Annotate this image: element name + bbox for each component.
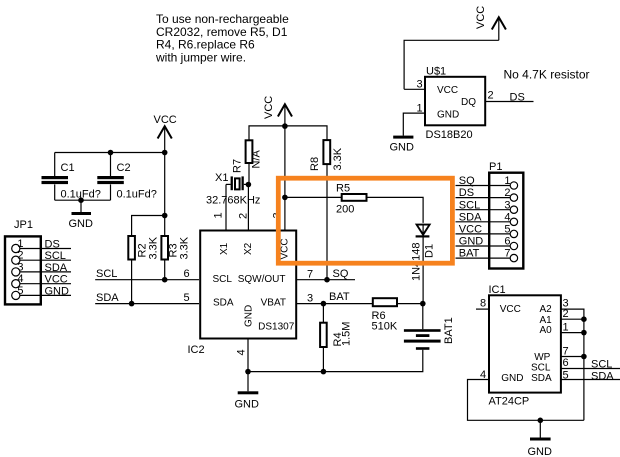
svg-text:3: 3: [307, 293, 313, 305]
ground (IC2): [235, 372, 260, 411]
ground (U$1): [390, 136, 415, 154]
wire SQ stub (IC2 pin7): [296, 279, 355, 281]
wire IC1 pin3 A2: [561, 309, 584, 420]
svg-text:SCL: SCL: [459, 199, 480, 211]
svg-text:BAT: BAT: [329, 291, 350, 303]
connector JP1: [5, 219, 41, 304]
svg-text:C2: C2: [117, 162, 131, 174]
svg-text:VCC: VCC: [263, 96, 275, 119]
P1 pin 4: [456, 211, 518, 225]
svg-text:U$1: U$1: [426, 66, 446, 78]
wire SDA: [95, 303, 199, 305]
P1 pin 2: [456, 187, 518, 201]
svg-text:200: 200: [336, 203, 354, 215]
wire IC1 pin8: [476, 308, 489, 310]
svg-text:SQ: SQ: [333, 268, 349, 280]
svg-text:3.3K: 3.3K: [179, 236, 191, 259]
svg-text:2: 2: [504, 187, 510, 199]
svg-text:SDA: SDA: [96, 292, 119, 304]
svg-text:IC2: IC2: [188, 344, 205, 356]
svg-text:8: 8: [480, 298, 486, 310]
IC U$1 DS18B20 body: [425, 66, 485, 142]
resistor R8: [309, 140, 344, 280]
svg-text:A0: A0: [539, 325, 552, 336]
svg-text:3: 3: [504, 199, 510, 211]
svg-text:1: 1: [504, 175, 510, 187]
wire IC1 pin1 A0: [561, 332, 584, 334]
svg-text:4: 4: [236, 349, 248, 355]
svg-text:SQ: SQ: [459, 175, 475, 187]
svg-text:DS: DS: [510, 92, 525, 104]
JP1 pin 3: [12, 261, 71, 276]
wire BAT (IC2 pin3 VBAT): [296, 303, 373, 305]
svg-text:SCL: SCL: [96, 268, 117, 280]
JP1 pin 2: [12, 250, 71, 265]
svg-text:1: 1: [17, 238, 23, 250]
wire U$1 VCC feed: [404, 40, 499, 89]
capacitor C2: [97, 153, 157, 201]
wire to R2: [132, 216, 165, 237]
svg-text:VCC: VCC: [280, 238, 291, 259]
svg-text:SDA: SDA: [591, 370, 614, 382]
svg-text:GND: GND: [45, 285, 70, 297]
JP1 pin 4: [12, 273, 71, 288]
svg-text:VCC: VCC: [437, 85, 458, 96]
svg-text:7: 7: [307, 269, 313, 281]
svg-text:No 4.7K resistor: No 4.7K resistor: [504, 68, 590, 82]
JP1 pin 5: [12, 285, 71, 300]
node R2/R3 top: [162, 213, 168, 219]
svg-text:6: 6: [504, 236, 510, 248]
svg-text:SCL: SCL: [45, 250, 66, 262]
svg-text:DS18B20: DS18B20: [426, 129, 473, 141]
svg-text:P1: P1: [489, 161, 502, 173]
svg-text:with jumper wire.: with jumper wire.: [155, 50, 246, 64]
svg-text:SCL: SCL: [531, 362, 551, 373]
svg-text:GND: GND: [501, 373, 523, 384]
svg-text:6: 6: [563, 357, 569, 369]
node R2/SDA: [129, 301, 135, 307]
note text: [155, 12, 289, 64]
svg-text:IC1: IC1: [489, 284, 506, 296]
svg-text:SDA: SDA: [213, 298, 234, 309]
svg-text:0.1uFd?: 0.1uFd?: [117, 189, 157, 201]
resistor R4: [320, 304, 352, 372]
node R4 top: [321, 301, 327, 307]
svg-text:3.3K: 3.3K: [148, 236, 160, 259]
wire IC2 pin1: [225, 184, 227, 229]
P1 pin 7: [456, 248, 518, 262]
node R5 tap on VCC line: [282, 195, 288, 201]
resistor R6: [372, 298, 423, 332]
svg-text:VCC: VCC: [500, 304, 521, 315]
svg-text:2: 2: [563, 308, 569, 320]
svg-text:1: 1: [213, 212, 225, 218]
svg-text:SCL: SCL: [591, 359, 612, 371]
node X2/R7: [246, 182, 252, 188]
JP1 pin 1: [12, 238, 71, 253]
battery BAT1: [248, 304, 455, 372]
power VCC (top right): [475, 6, 506, 41]
svg-text:C1: C1: [61, 162, 75, 174]
svg-text:510K: 510K: [372, 321, 398, 333]
P1 pin 3: [456, 199, 518, 213]
svg-text:SDA: SDA: [459, 211, 482, 223]
node gnd rail / pin4: [245, 369, 251, 375]
svg-text:VCC: VCC: [154, 114, 177, 126]
svg-text:3: 3: [17, 261, 23, 273]
svg-text:GND: GND: [235, 399, 260, 411]
svg-text:GND: GND: [528, 446, 553, 457]
power VCC (left): [154, 114, 177, 153]
node A1: [581, 316, 587, 322]
svg-text:R5: R5: [336, 183, 350, 195]
svg-text:JP1: JP1: [14, 219, 33, 231]
svg-text:5: 5: [504, 224, 510, 236]
wire IC1 pin2 A1: [561, 318, 584, 320]
svg-text:DS: DS: [459, 187, 474, 199]
svg-text:GND: GND: [390, 142, 415, 154]
svg-text:X1: X1: [215, 172, 228, 184]
wire SCL: [95, 279, 199, 281]
wire U$1 pin1 gnd: [403, 113, 425, 136]
svg-text:N/A: N/A: [251, 150, 263, 169]
wire IC2 pin2: [247, 185, 249, 230]
svg-text:3.3K: 3.3K: [332, 147, 344, 170]
resistor R7: [232, 140, 263, 184]
node A0: [581, 330, 587, 336]
wire IC1 pin5 SDA stub: [561, 379, 620, 381]
wire IC1 pin7 WP: [561, 356, 584, 358]
svg-text:GND: GND: [459, 236, 484, 248]
svg-text:7: 7: [504, 248, 510, 260]
node R4 bottom: [321, 369, 327, 375]
svg-text:DQ: DQ: [461, 97, 476, 108]
svg-text:BAT: BAT: [459, 248, 480, 260]
svg-text:2: 2: [17, 250, 23, 262]
node VCC mid: [282, 123, 288, 129]
power VCC (middle): [263, 96, 292, 126]
svg-text:VCC: VCC: [475, 6, 487, 29]
svg-text:VCC: VCC: [459, 224, 482, 236]
node C2 top: [108, 150, 114, 156]
P1 pin 1: [456, 175, 518, 189]
IC U$2 DS1307 body: [188, 231, 297, 357]
svg-text:AT24CP: AT24CP: [489, 396, 530, 408]
svg-text:4: 4: [17, 273, 23, 285]
capacitor C1: [42, 153, 101, 201]
node R3/SCL: [162, 277, 168, 283]
P1 pin 6: [456, 236, 518, 250]
resistor R2: [128, 236, 159, 304]
svg-text:R7: R7: [232, 159, 244, 173]
wire IC1 pin6 SCL stub: [561, 368, 620, 370]
wire IC1 pin4 gnd: [468, 380, 584, 421]
wire IC2 pin4 gnd: [247, 339, 249, 372]
svg-text:4: 4: [504, 211, 510, 223]
node VCC left: [162, 150, 168, 156]
wire VCC vertical left: [164, 153, 166, 216]
svg-text:SCL: SCL: [213, 274, 233, 285]
node D1/BAT1: [420, 301, 426, 307]
wire U$1 pin3: [404, 88, 425, 90]
P1 pin 5: [456, 224, 518, 238]
wire IC2 pin3 VCC vertical: [284, 126, 286, 229]
svg-text:7: 7: [563, 346, 569, 358]
wire VCC mid rail: [249, 126, 327, 140]
svg-text:GND: GND: [244, 305, 255, 327]
resistor R5: [285, 183, 423, 223]
ground (caps): [69, 200, 94, 230]
ground (IC1): [528, 420, 553, 457]
svg-text:A2: A2: [539, 304, 552, 315]
svg-text:2: 2: [488, 90, 494, 102]
svg-text:SDA: SDA: [531, 373, 552, 384]
svg-text:DS1307: DS1307: [258, 322, 295, 333]
highlight box (orange): [278, 178, 452, 263]
svg-text:3: 3: [417, 79, 423, 91]
svg-text:X1: X1: [219, 242, 230, 255]
node IC1 gnd: [538, 418, 544, 424]
diode D1: [411, 224, 436, 304]
resistor R3: [161, 216, 190, 280]
svg-text:1: 1: [563, 322, 569, 334]
wire C1/C2 bottom: [55, 199, 111, 201]
svg-text:D1: D1: [424, 244, 436, 258]
node R8/SQ: [324, 277, 330, 283]
node WP: [581, 354, 587, 360]
wire U$1 pin2 DQ: [485, 101, 533, 103]
crystal X1: [206, 172, 260, 207]
svg-text:VCC: VCC: [45, 274, 68, 286]
svg-text:32.768KHz: 32.768KHz: [206, 195, 260, 207]
svg-text:1.5M: 1.5M: [341, 322, 353, 346]
svg-text:SQW/OUT: SQW/OUT: [238, 274, 286, 285]
connector P1: [489, 161, 523, 269]
svg-text:5: 5: [184, 292, 190, 304]
svg-text:GND: GND: [437, 109, 459, 120]
svg-text:DS: DS: [45, 239, 60, 251]
IC IC1 AT24CP body: [489, 284, 561, 408]
svg-text:SDA: SDA: [45, 262, 68, 274]
svg-text:R8: R8: [309, 157, 321, 171]
wire VCC top rail left: [55, 152, 165, 154]
node cap gnd: [78, 197, 84, 203]
svg-text:GND: GND: [69, 218, 94, 230]
svg-text:X2: X2: [243, 242, 254, 255]
svg-text:2: 2: [238, 213, 250, 219]
svg-text:VBAT: VBAT: [261, 298, 286, 309]
svg-text:6: 6: [184, 268, 190, 280]
svg-text:5: 5: [17, 285, 23, 297]
svg-text:BAT1: BAT1: [443, 317, 455, 344]
